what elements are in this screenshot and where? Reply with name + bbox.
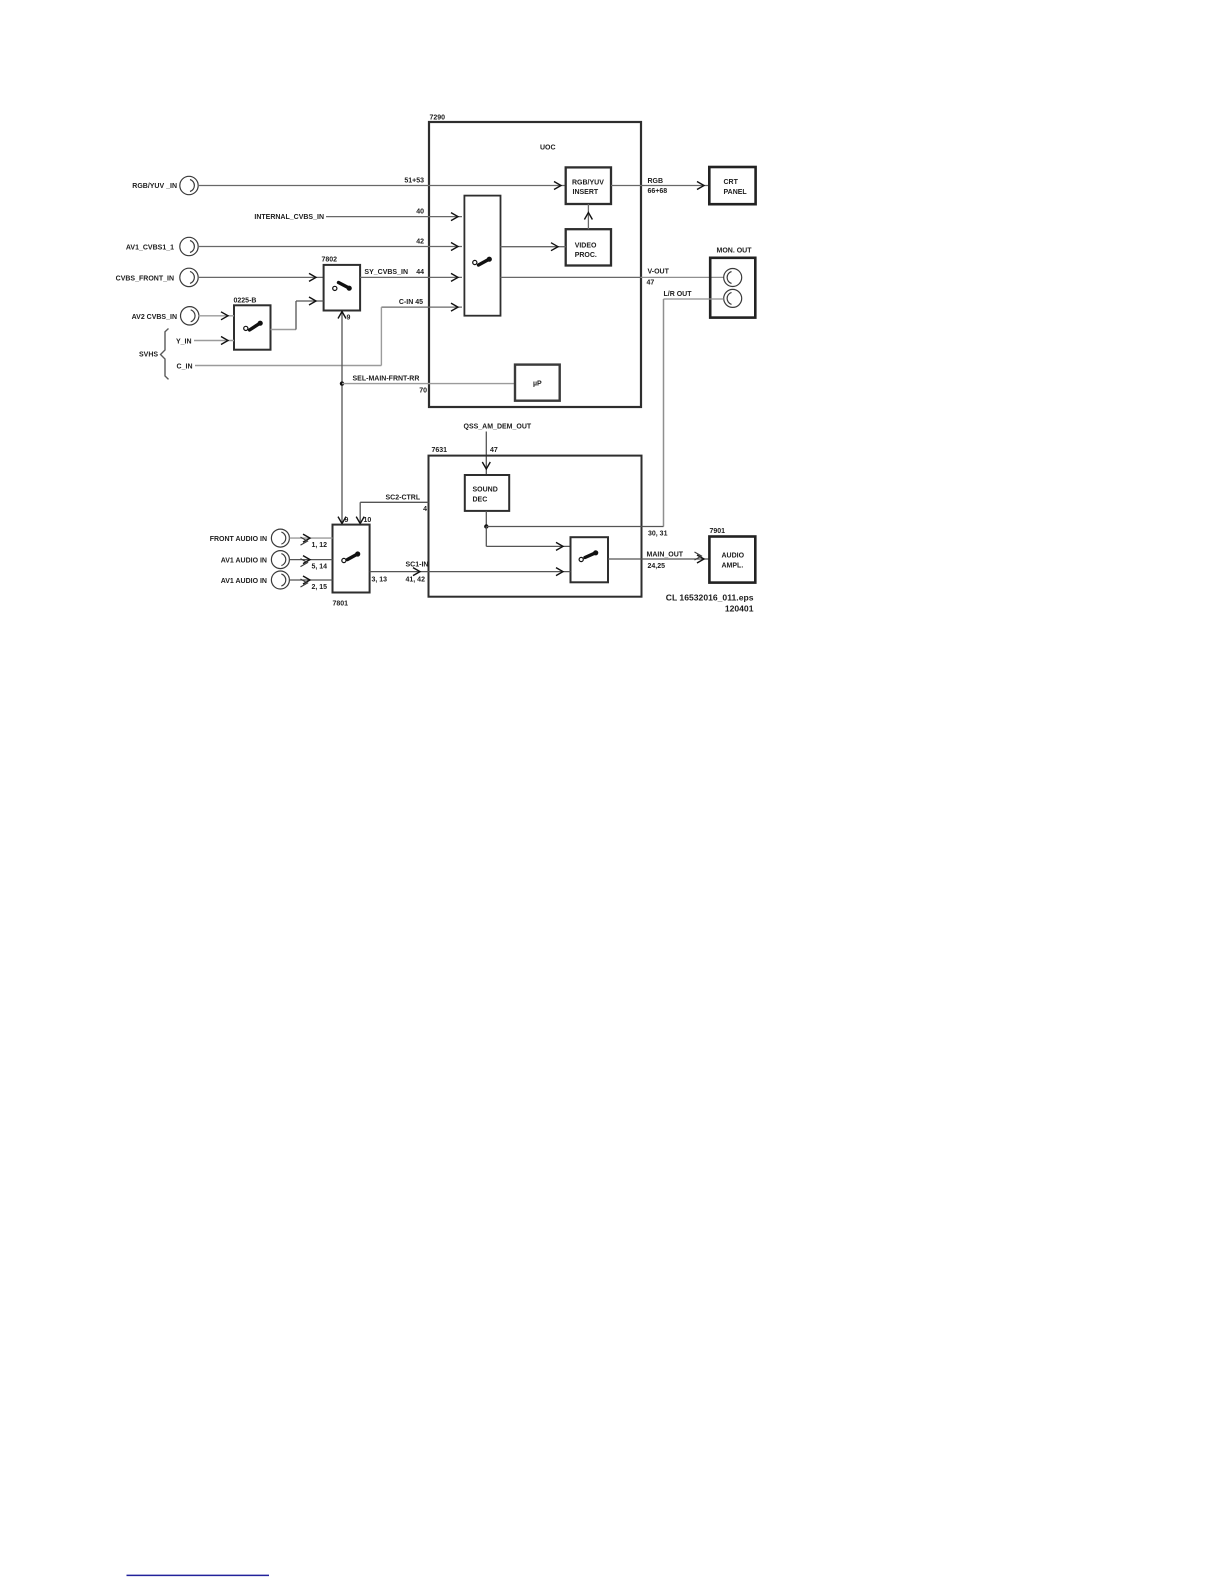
- svg-text:UOC: UOC: [540, 145, 556, 152]
- caption eps name: [666, 593, 754, 614]
- svg-text:RGB: RGB: [648, 178, 664, 185]
- block CRT PANEL: [709, 167, 755, 204]
- connector J2 AV1_CVBS1_1: [126, 237, 198, 255]
- svg-text:40: 40: [416, 209, 424, 216]
- svg-text:V-OUT: V-OUT: [648, 269, 670, 276]
- svg-text:AV1_CVBS1_1: AV1_CVBS1_1: [126, 245, 174, 252]
- switch IC 7802: [322, 257, 361, 311]
- svg-text:AV1 AUDIO IN: AV1 AUDIO IN: [221, 558, 267, 565]
- svg-text:AV1 AUDIO IN: AV1 AUDIO IN: [221, 578, 267, 585]
- svg-text:44: 44: [416, 269, 424, 276]
- svg-text:7631: 7631: [432, 447, 448, 454]
- wire VIDEO PROC to RGB/YUV INSERT: [584, 204, 592, 229]
- wire SOUND DEC to 30,31 and switch: [484, 511, 667, 551]
- jack MON OUT audio: [724, 289, 742, 307]
- switch IC 0225-B: [234, 298, 271, 350]
- svg-text:AMPL.: AMPL.: [722, 563, 744, 570]
- svg-text:47: 47: [490, 447, 498, 454]
- svg-text:24,25: 24,25: [648, 563, 666, 570]
- wire AV1 AUDIO pins 5,14: [290, 556, 333, 571]
- wire L/R OUT: [664, 291, 724, 299]
- svg-text:4: 4: [423, 506, 427, 513]
- wire MAIN_OUT pins 24,25: [608, 552, 709, 571]
- block RGB/YUV INSERT: [566, 167, 611, 204]
- svg-text:INSERT: INSERT: [573, 189, 599, 196]
- svg-text:C-IN 45: C-IN 45: [399, 299, 423, 306]
- svg-text:2, 15: 2, 15: [312, 584, 328, 591]
- svg-text:10: 10: [364, 517, 372, 524]
- svg-text:RGB/YUV _IN: RGB/YUV _IN: [132, 183, 177, 190]
- wire V-OUT pin 47: [501, 269, 724, 287]
- svg-text:CRT: CRT: [724, 179, 739, 186]
- jack MON OUT video: [724, 269, 742, 287]
- svg-text:RGB/YUV: RGB/YUV: [572, 180, 604, 187]
- wire 0225-B out to 7802 lower input: [271, 297, 324, 330]
- svg-text:FRONT AUDIO IN: FRONT AUDIO IN: [210, 536, 267, 543]
- svg-text:PANEL: PANEL: [724, 189, 748, 196]
- wire C-IN pin 45 into UOC switch: [381, 299, 462, 311]
- svg-text:AUDIO: AUDIO: [722, 553, 745, 560]
- svg-text:3, 13: 3, 13: [372, 577, 388, 584]
- block SOUND DEC: [465, 475, 509, 511]
- svg-text:MAIN_OUT: MAIN_OUT: [647, 552, 684, 559]
- svg-text:66+68: 66+68: [648, 188, 668, 195]
- svg-text:SY_CVBS_IN: SY_CVBS_IN: [364, 269, 408, 276]
- svg-text:SOUND: SOUND: [473, 487, 498, 494]
- svg-text:MON. OUT: MON. OUT: [717, 248, 753, 255]
- wire SEL-MAIN-FRNT-RR pin 70 to uP: [342, 376, 515, 395]
- svg-text:1, 12: 1, 12: [312, 542, 328, 549]
- svg-text:QSS_AM_DEM_OUT: QSS_AM_DEM_OUT: [464, 424, 532, 431]
- wire CVBS_FRONT_IN to 7802: [198, 273, 324, 281]
- switch IC 7801: [333, 525, 370, 608]
- svg-text:INTERNAL_CVBS_IN: INTERNAL_CVBS_IN: [254, 214, 324, 221]
- svg-text:CL 16532016_011.eps: CL 16532016_011.eps: [666, 593, 754, 603]
- svg-text:Y_IN: Y_IN: [176, 339, 192, 346]
- svg-text:70: 70: [419, 388, 427, 395]
- svg-text:0225-B: 0225-B: [234, 298, 257, 305]
- footer link line: [127, 1574, 270, 1576]
- svg-text:5, 14: 5, 14: [312, 564, 328, 571]
- wire L/R riser to audio 30,31: [663, 299, 665, 527]
- svg-text:PROC.: PROC.: [575, 252, 597, 259]
- wire AV1 AUDIO 2 pins 2,15: [290, 576, 333, 591]
- block MON. OUT: [710, 248, 755, 318]
- wire FRONT AUDIO pins 1,12: [290, 534, 333, 549]
- svg-text:SC2-CTRL: SC2-CTRL: [386, 495, 421, 502]
- svg-text:7802: 7802: [322, 257, 338, 264]
- connector J1 RGB/YUV_IN: [132, 176, 198, 194]
- svg-text:SVHS: SVHS: [139, 352, 158, 359]
- wire SY_CVBS_IN pin 44 from 7802 to UOC switch: [360, 269, 462, 281]
- connector J7 AV1 AUDIO IN 2: [221, 571, 290, 589]
- block uP: [515, 365, 560, 401]
- svg-text:C_IN: C_IN: [177, 364, 193, 371]
- node C_IN: [177, 307, 382, 370]
- node INTERNAL_CVBS_IN pin 40: [254, 209, 462, 222]
- svg-text:SEL-MAIN-FRNT-RR: SEL-MAIN-FRNT-RR: [353, 376, 420, 383]
- svg-text:30, 31: 30, 31: [648, 531, 668, 538]
- svg-text:SC1-IN: SC1-IN: [406, 562, 429, 569]
- svg-text:47: 47: [647, 280, 655, 287]
- connector J4 AV2 CVBS_IN: [132, 307, 199, 325]
- svg-text:DEC: DEC: [473, 497, 488, 504]
- wire SC2-CTRL pin 4: [356, 495, 428, 525]
- wire RGB 66+68 INSERT to CRT PANEL: [611, 178, 709, 195]
- wire pin 42 AV1 to switch: [198, 239, 462, 251]
- IC 7631 sound box: [429, 447, 642, 597]
- svg-text:VIDEO: VIDEO: [575, 242, 597, 249]
- node QSS_AM_DEM_OUT pin 47: [464, 424, 532, 476]
- svg-text:7290: 7290: [430, 115, 446, 122]
- svg-text:9: 9: [347, 315, 351, 322]
- wire pin9 bus 7802 down to 7801: [338, 311, 351, 525]
- wire UOC switch to VIDEO PROC: [501, 243, 566, 251]
- svg-text:AV2 CVBS_IN: AV2 CVBS_IN: [132, 314, 177, 321]
- svg-text:L/R OUT: L/R OUT: [664, 291, 693, 298]
- IC U7290 UOC main box: [429, 115, 641, 408]
- wire SC1-IN pins 3,13 / 41,42: [370, 562, 571, 584]
- node Y_IN: [176, 337, 234, 346]
- wire 51+53 RGB/YUV_IN to RGB/YUV INSERT: [198, 178, 565, 190]
- svg-text:CVBS_FRONT_IN: CVBS_FRONT_IN: [116, 276, 174, 283]
- connector J6 AV1 AUDIO IN: [221, 551, 290, 569]
- svg-text:µP: µP: [533, 381, 542, 388]
- switch inside UOC: [464, 196, 500, 316]
- switch audio inside 7631: [571, 537, 609, 582]
- svg-text:51+53: 51+53: [404, 178, 424, 185]
- connector J5 FRONT AUDIO IN: [210, 529, 290, 547]
- svg-text:9: 9: [345, 517, 349, 524]
- wire AV2 to 0225-B: [199, 312, 235, 320]
- svg-text:120401: 120401: [725, 604, 754, 614]
- block VIDEO PROC: [566, 229, 611, 265]
- svg-text:7801: 7801: [333, 601, 349, 608]
- svg-text:41, 42: 41, 42: [406, 577, 426, 584]
- svg-text:7901: 7901: [710, 528, 726, 535]
- block 7901 AUDIO AMPL: [709, 528, 755, 583]
- SVHS brace: [139, 329, 169, 380]
- connector J3 CVBS_FRONT_IN: [116, 268, 199, 286]
- svg-text:42: 42: [416, 239, 424, 246]
